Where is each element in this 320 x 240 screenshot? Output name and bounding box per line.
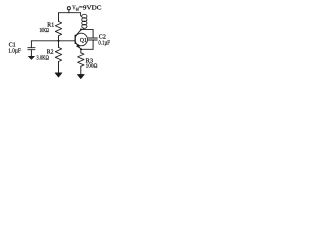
junction dot emitter node	[80, 48, 82, 50]
capacitor C1	[28, 47, 35, 49]
wire top rail	[59, 12, 81, 14]
wire C2 bottom lead down to emitter wire	[92, 40, 94, 49]
junction dot base node	[57, 40, 59, 42]
svg-text:10KΩ: 10KΩ	[39, 27, 48, 34]
resistor R1	[55, 21, 61, 35]
wire emitter node to C2 bottom	[81, 48, 93, 50]
svg-text:100Ω: 100Ω	[86, 62, 98, 69]
svg-text:0.1µF: 0.1µF	[98, 40, 110, 47]
power terminal circle Vdd	[67, 7, 70, 10]
transistor Q1 emitter lead	[76, 43, 81, 49]
junction dot collector node	[80, 28, 82, 30]
svg-text:1.0µF: 1.0µF	[8, 48, 21, 55]
resistor R2	[55, 47, 61, 61]
wire inductor bottom tail	[82, 28, 84, 29]
inductor L1	[80, 13, 83, 17]
wire R1 bottom lead	[58, 36, 60, 41]
transistor Q1 collector lead	[76, 30, 82, 36]
wire R2 bottom lead	[58, 62, 60, 74]
capacitor C2	[88, 37, 97, 39]
wire R3 bottom lead	[80, 66, 82, 74]
svg-text:3.0KΩ: 3.0KΩ	[36, 55, 49, 62]
wire R1 top lead	[58, 13, 60, 22]
wire R3 top lead	[80, 49, 82, 53]
svg-text:Q1: Q1	[80, 37, 87, 44]
transistor Q1 circle	[75, 33, 88, 46]
transistor Q1 emitter arrowhead	[77, 45, 80, 48]
transistor Q1 base bar	[74, 35, 76, 43]
ground arrow below C1	[28, 56, 34, 59]
wire C1 drop from base wire	[30, 41, 32, 48]
wire R2 top lead	[58, 41, 60, 48]
wire collector node to C2	[81, 29, 93, 38]
resistor R3	[78, 53, 84, 66]
wire base	[31, 40, 75, 42]
wire C1 bottom lead	[30, 50, 32, 57]
ground arrow below R2	[55, 73, 62, 77]
wire power stem	[68, 10, 70, 13]
ground arrow below R3	[77, 75, 84, 79]
svg-text:Vdd=9VDC: Vdd=9VDC	[72, 5, 101, 12]
